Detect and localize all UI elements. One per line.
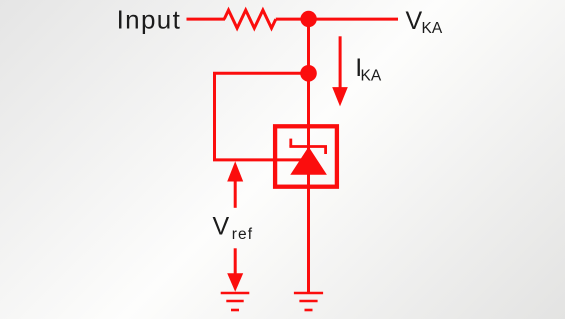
zener cathode bar <box>289 139 327 154</box>
resistor R1 <box>224 10 276 28</box>
ground left <box>221 293 250 310</box>
wire feedback loop <box>215 73 309 160</box>
wire resistor to VKA <box>276 18 398 21</box>
junction node feedback (dot) <box>300 65 317 82</box>
label IKA <box>355 54 382 84</box>
ground right <box>294 293 323 310</box>
node VKA label <box>406 7 443 37</box>
TL431 U1 box <box>275 126 337 186</box>
current arrow IKA <box>332 36 348 106</box>
svg-text:ref: ref <box>232 226 253 243</box>
svg-text:KA: KA <box>361 67 382 84</box>
svg-text:V: V <box>213 213 230 241</box>
junction node cathode (dot) <box>300 11 316 27</box>
wire input to resistor <box>187 18 226 21</box>
Vref arrow down <box>227 248 243 291</box>
label Vref <box>213 213 254 243</box>
svg-text:Input: Input <box>117 5 182 35</box>
wire cathode vertical <box>307 19 310 292</box>
anode triangle <box>290 147 327 175</box>
Vref arrow up <box>227 161 243 208</box>
svg-text:KA: KA <box>422 20 443 37</box>
svg-text:V: V <box>406 7 423 35</box>
